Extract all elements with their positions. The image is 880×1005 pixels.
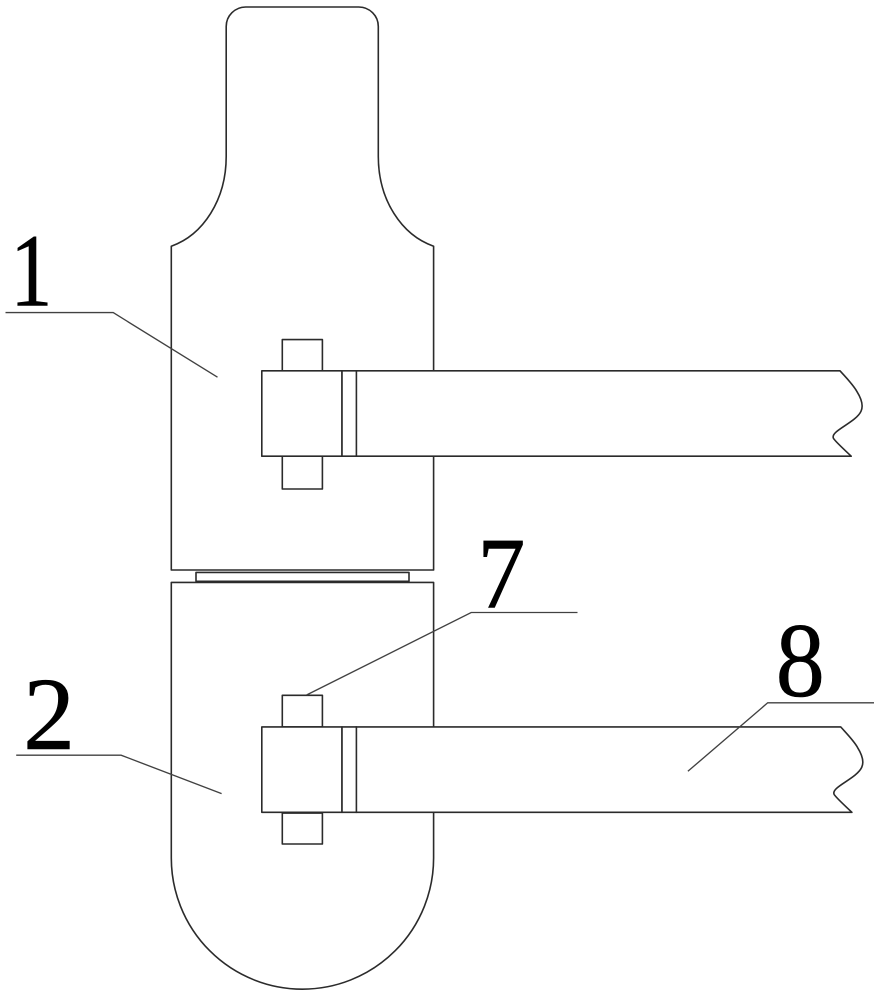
upper top tab (282, 340, 322, 371)
lower clamp block (262, 727, 342, 812)
leader line for label 1 (6, 313, 218, 378)
lower top tab (282, 695, 322, 727)
svg-text:1: 1 (10, 214, 52, 328)
lower arm outline with break line (356, 727, 863, 812)
upper arm outline with break line (356, 371, 862, 456)
leader line for label 8 (688, 703, 874, 772)
leader line for label 7 (307, 613, 578, 695)
svg-text:7: 7 (477, 518, 525, 630)
upper arm fill (356, 371, 862, 456)
upper clamp band (342, 371, 356, 456)
upper bottom tab (282, 456, 322, 489)
lower clamp band (342, 727, 356, 812)
gasket strip between housings (196, 572, 409, 581)
svg-text:2: 2 (23, 657, 75, 772)
lower housing body 2 (171, 582, 433, 989)
upper housing body 1 (171, 7, 433, 570)
svg-text:8: 8 (776, 603, 825, 720)
lower arm fill (356, 727, 863, 812)
upper clamp block (262, 371, 342, 456)
leader line for label 2 (16, 755, 221, 793)
lower bottom tab (282, 813, 322, 844)
